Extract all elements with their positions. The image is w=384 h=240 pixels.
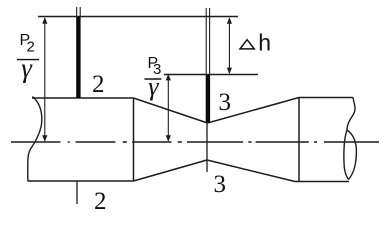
svg-text:2: 2	[92, 71, 105, 98]
svg-text:γ: γ	[21, 53, 33, 83]
svg-text:3: 3	[214, 171, 227, 198]
svg-text:γ: γ	[148, 72, 159, 101]
svg-text:h: h	[258, 30, 271, 56]
svg-text:2: 2	[94, 188, 107, 215]
svg-text:3: 3	[219, 89, 232, 116]
